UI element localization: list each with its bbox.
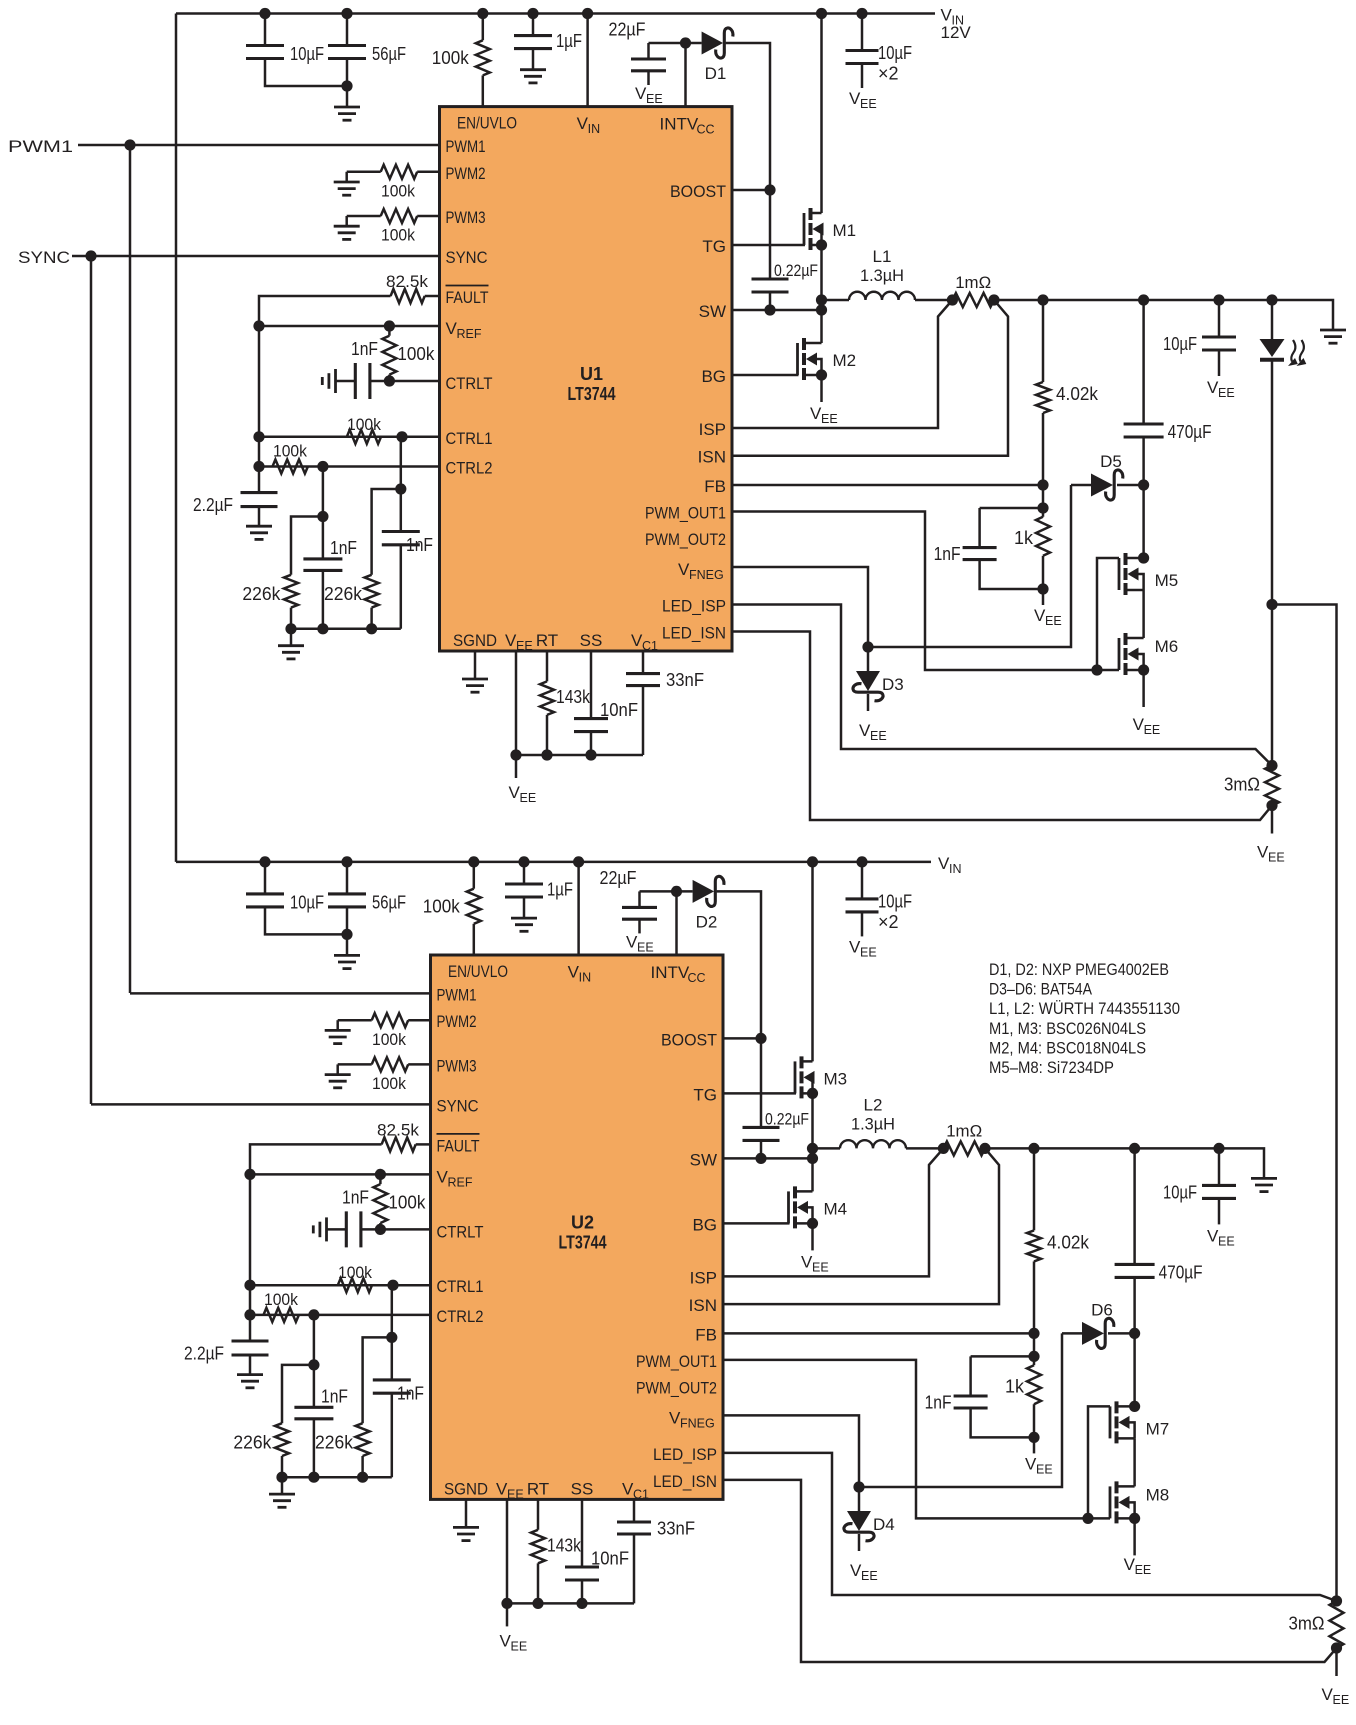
svg-text:FAULT: FAULT xyxy=(446,288,489,307)
svg-text:EE: EE xyxy=(516,639,533,653)
svg-text:SYNC: SYNC xyxy=(437,1096,479,1115)
svg-text:10µF: 10µF xyxy=(878,891,912,911)
svg-text:U1: U1 xyxy=(580,364,603,384)
svg-text:INTV: INTV xyxy=(651,963,690,982)
svg-text:100k: 100k xyxy=(372,1030,406,1049)
svg-text:D1: D1 xyxy=(705,64,727,83)
svg-text:D4: D4 xyxy=(873,1515,895,1534)
svg-text:D6: D6 xyxy=(1091,1300,1113,1319)
svg-text:CTRLT: CTRLT xyxy=(437,1222,484,1241)
svg-text:56µF: 56µF xyxy=(372,892,406,912)
svg-text:4.02k: 4.02k xyxy=(1047,1232,1090,1252)
svg-text:REF: REF xyxy=(457,327,482,341)
svg-text:100k: 100k xyxy=(381,226,415,245)
svg-text:C1: C1 xyxy=(642,639,658,653)
svg-text:EE: EE xyxy=(1036,1462,1053,1476)
svg-text:IN: IN xyxy=(588,122,601,136)
svg-text:100k: 100k xyxy=(397,344,435,364)
svg-text:PWM1: PWM1 xyxy=(437,985,477,1004)
svg-text:ISP: ISP xyxy=(699,420,726,439)
svg-text:PWM1: PWM1 xyxy=(446,137,486,156)
svg-text:EE: EE xyxy=(511,1639,528,1653)
svg-text:M1, M3: BSC026N04LS: M1, M3: BSC026N04LS xyxy=(989,1019,1146,1038)
svg-text:LED_ISN: LED_ISN xyxy=(653,1472,717,1491)
svg-text:BG: BG xyxy=(692,1215,717,1234)
svg-text:56µF: 56µF xyxy=(372,44,406,64)
svg-text:PWM1: PWM1 xyxy=(8,137,73,156)
svg-text:100k: 100k xyxy=(423,896,461,916)
svg-text:100k: 100k xyxy=(432,48,470,68)
svg-text:EE: EE xyxy=(1144,723,1161,737)
svg-text:1nF: 1nF xyxy=(321,1386,348,1406)
svg-text:10µF: 10µF xyxy=(1163,1182,1197,1202)
svg-text:M7: M7 xyxy=(1146,1419,1170,1438)
svg-text:1k: 1k xyxy=(1014,528,1034,548)
svg-text:1k: 1k xyxy=(1005,1376,1025,1396)
svg-text:33nF: 33nF xyxy=(657,1518,695,1538)
svg-text:M5: M5 xyxy=(1155,571,1179,590)
svg-text:FB: FB xyxy=(704,477,726,496)
svg-text:RT: RT xyxy=(527,1479,549,1498)
svg-text:PWM2: PWM2 xyxy=(437,1012,477,1031)
svg-text:1nF: 1nF xyxy=(925,1392,952,1412)
svg-text:100k: 100k xyxy=(338,1263,372,1282)
svg-text:226k: 226k xyxy=(315,1432,354,1452)
svg-text:10µF: 10µF xyxy=(1163,334,1197,354)
svg-text:EE: EE xyxy=(860,97,877,111)
svg-text:SYNC: SYNC xyxy=(446,248,488,267)
svg-text:226k: 226k xyxy=(324,584,363,604)
svg-text:EE: EE xyxy=(860,945,877,959)
svg-text:1mΩ: 1mΩ xyxy=(955,273,991,292)
svg-text:CC: CC xyxy=(688,971,706,985)
svg-text:1µF: 1µF xyxy=(556,31,582,51)
svg-text:EE: EE xyxy=(637,940,654,954)
svg-text:LT3744: LT3744 xyxy=(559,1232,607,1252)
svg-text:LT3744: LT3744 xyxy=(568,384,616,404)
svg-text:EE: EE xyxy=(1333,1693,1350,1707)
svg-text:2.2µF: 2.2µF xyxy=(193,495,233,515)
svg-text:M2, M4: BSC018N04LS: M2, M4: BSC018N04LS xyxy=(989,1038,1146,1057)
svg-text:143k: 143k xyxy=(556,687,591,707)
svg-text:D2: D2 xyxy=(696,912,718,931)
svg-text:FAULT: FAULT xyxy=(437,1136,480,1155)
svg-text:SS: SS xyxy=(571,1479,594,1498)
svg-text:SGND: SGND xyxy=(453,631,497,650)
svg-text:EE: EE xyxy=(520,791,537,805)
svg-text:82.5k: 82.5k xyxy=(377,1120,419,1139)
svg-text:FNEG: FNEG xyxy=(680,1416,715,1430)
svg-text:100k: 100k xyxy=(388,1192,426,1212)
svg-text:CTRL2: CTRL2 xyxy=(437,1307,484,1326)
svg-text:1mΩ: 1mΩ xyxy=(946,1121,982,1140)
svg-text:D3–D6: BAT54A: D3–D6: BAT54A xyxy=(989,980,1093,999)
svg-text:0.22µF: 0.22µF xyxy=(765,1109,809,1128)
svg-text:100k: 100k xyxy=(347,415,381,434)
svg-text:EE: EE xyxy=(1218,386,1235,400)
svg-text:10µF: 10µF xyxy=(290,892,324,912)
svg-text:1nF: 1nF xyxy=(397,1383,424,1403)
svg-text:3mΩ: 3mΩ xyxy=(1289,1614,1325,1634)
svg-text:EE: EE xyxy=(821,412,838,426)
svg-text:SW: SW xyxy=(690,1150,717,1169)
svg-text:1.3µH: 1.3µH xyxy=(851,1114,895,1133)
svg-text:82.5k: 82.5k xyxy=(386,272,428,291)
svg-text:ISN: ISN xyxy=(689,1296,717,1315)
svg-text:143k: 143k xyxy=(547,1535,582,1555)
svg-text:SGND: SGND xyxy=(444,1479,488,1498)
svg-text:PWM_OUT1: PWM_OUT1 xyxy=(636,1352,717,1371)
svg-text:FNEG: FNEG xyxy=(689,568,724,582)
svg-text:PWM2: PWM2 xyxy=(446,164,486,183)
svg-text:22µF: 22µF xyxy=(600,868,637,888)
svg-text:EE: EE xyxy=(1268,851,1285,865)
svg-text:×2: ×2 xyxy=(878,64,899,84)
svg-text:D3: D3 xyxy=(882,675,904,694)
svg-text:1nF: 1nF xyxy=(406,535,433,555)
svg-text:2.2µF: 2.2µF xyxy=(184,1343,224,1363)
svg-text:0.22µF: 0.22µF xyxy=(774,261,818,280)
svg-text:M6: M6 xyxy=(1155,637,1179,656)
svg-text:226k: 226k xyxy=(233,1432,272,1452)
svg-text:PWM3: PWM3 xyxy=(437,1056,477,1075)
svg-text:EN/UVLO: EN/UVLO xyxy=(448,962,508,981)
svg-text:CTRL2: CTRL2 xyxy=(446,459,493,478)
svg-text:BOOST: BOOST xyxy=(661,1030,717,1049)
svg-text:EE: EE xyxy=(646,92,663,106)
svg-text:LED_ISN: LED_ISN xyxy=(662,624,726,643)
svg-text:10µF: 10µF xyxy=(290,44,324,64)
svg-text:ISP: ISP xyxy=(690,1268,717,1287)
svg-text:EE: EE xyxy=(861,1569,878,1583)
svg-text:33nF: 33nF xyxy=(666,670,704,690)
svg-text:M5–M8: Si7234DP: M5–M8: Si7234DP xyxy=(989,1058,1114,1077)
svg-text:EE: EE xyxy=(1135,1563,1152,1577)
svg-text:PWM_OUT2: PWM_OUT2 xyxy=(636,1378,717,1397)
svg-text:SS: SS xyxy=(580,631,603,650)
svg-text:U2: U2 xyxy=(571,1212,594,1232)
svg-text:226k: 226k xyxy=(242,584,281,604)
svg-text:LED_ISP: LED_ISP xyxy=(653,1445,717,1464)
svg-text:4.02k: 4.02k xyxy=(1056,384,1099,404)
svg-text:1µF: 1µF xyxy=(547,879,573,899)
svg-text:RT: RT xyxy=(536,631,558,650)
svg-text:1nF: 1nF xyxy=(342,1187,369,1207)
svg-text:12V: 12V xyxy=(941,23,972,42)
svg-text:1nF: 1nF xyxy=(351,339,378,359)
svg-text:CTRL1: CTRL1 xyxy=(437,1277,484,1296)
svg-text:1nF: 1nF xyxy=(330,538,357,558)
svg-text:PWM_OUT1: PWM_OUT1 xyxy=(645,504,726,523)
svg-text:10nF: 10nF xyxy=(591,1548,629,1568)
svg-text:22µF: 22µF xyxy=(609,20,646,40)
svg-text:10µF: 10µF xyxy=(878,43,912,63)
svg-text:EN/UVLO: EN/UVLO xyxy=(457,114,517,133)
svg-text:SW: SW xyxy=(699,302,726,321)
svg-text:D1, D2: NXP PMEG4002EB: D1, D2: NXP PMEG4002EB xyxy=(989,960,1169,979)
svg-text:3mΩ: 3mΩ xyxy=(1224,775,1260,795)
svg-text:100k: 100k xyxy=(264,1290,298,1309)
svg-text:TG: TG xyxy=(702,237,726,256)
svg-text:M8: M8 xyxy=(1146,1485,1170,1504)
svg-text:TG: TG xyxy=(693,1085,717,1104)
svg-text:1nF: 1nF xyxy=(934,544,961,564)
svg-text:EE: EE xyxy=(1045,614,1062,628)
svg-text:CTRLT: CTRLT xyxy=(446,374,493,393)
svg-text:M4: M4 xyxy=(824,1199,848,1218)
svg-text:470µF: 470µF xyxy=(1159,1262,1203,1282)
svg-text:M1: M1 xyxy=(833,221,857,240)
svg-text:INTV: INTV xyxy=(660,115,699,134)
svg-text:1.3µH: 1.3µH xyxy=(860,266,904,285)
svg-text:L1: L1 xyxy=(873,247,892,266)
svg-text:FB: FB xyxy=(695,1325,717,1344)
svg-text:CC: CC xyxy=(697,123,715,137)
svg-text:M2: M2 xyxy=(833,351,857,370)
svg-text:EE: EE xyxy=(1218,1234,1235,1248)
svg-text:EE: EE xyxy=(507,1487,524,1501)
svg-text:EE: EE xyxy=(812,1260,829,1274)
svg-text:L1, L2: WÜRTH 7443551130: L1, L2: WÜRTH 7443551130 xyxy=(989,999,1180,1018)
svg-text:PWM_OUT2: PWM_OUT2 xyxy=(645,530,726,549)
svg-text:100k: 100k xyxy=(273,442,307,461)
svg-text:100k: 100k xyxy=(381,182,415,201)
svg-text:M3: M3 xyxy=(824,1069,848,1088)
svg-text:470µF: 470µF xyxy=(1168,422,1212,442)
svg-text:L2: L2 xyxy=(864,1095,883,1114)
svg-text:REF: REF xyxy=(448,1175,473,1189)
svg-text:ISN: ISN xyxy=(698,448,726,467)
svg-text:CTRL1: CTRL1 xyxy=(446,429,493,448)
svg-text:10nF: 10nF xyxy=(600,700,638,720)
svg-text:PWM3: PWM3 xyxy=(446,208,486,227)
svg-text:BOOST: BOOST xyxy=(670,182,726,201)
svg-text:IN: IN xyxy=(579,971,592,985)
svg-text:IN: IN xyxy=(949,862,962,876)
svg-text:LED_ISP: LED_ISP xyxy=(662,597,726,616)
svg-text:100k: 100k xyxy=(372,1074,406,1093)
svg-text:C1: C1 xyxy=(633,1487,649,1501)
svg-text:D5: D5 xyxy=(1100,452,1122,471)
svg-text:BG: BG xyxy=(701,367,726,386)
svg-text:SYNC: SYNC xyxy=(18,248,70,267)
svg-text:×2: ×2 xyxy=(878,912,899,932)
svg-text:EE: EE xyxy=(870,729,887,743)
